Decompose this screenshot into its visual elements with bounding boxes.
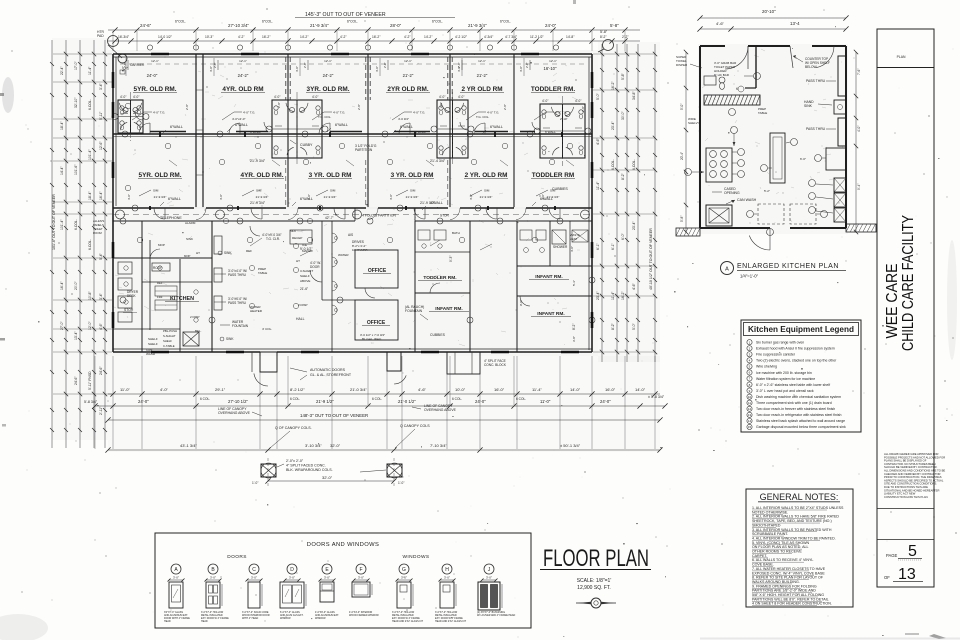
svg-text:OPENING: OPENING	[724, 191, 740, 195]
svg-text:CHILD CARE FACILITY: CHILD CARE FACILITY	[900, 215, 917, 351]
svg-text:WOOD FRAMED WINDOW: WOOD FRAMED WINDOW	[349, 614, 379, 617]
svg-text:SHELF: SHELF	[148, 337, 158, 341]
svg-text:16'-2": 16'-2"	[621, 291, 625, 300]
svg-text:13: 13	[898, 566, 916, 583]
svg-text:Kitchen Equipment Legend: Kitchen Equipment Legend	[748, 325, 854, 334]
svg-text:TODDLER RM.: TODDLER RM.	[423, 275, 456, 281]
svg-text:T.G. CLR.: T.G. CLR.	[266, 237, 280, 241]
door-window symbol G	[399, 564, 409, 574]
svg-text:20'-4": 20'-4"	[680, 152, 684, 160]
svg-text:Garbage disposal mounted below: Garbage disposal mounted below three com…	[756, 425, 846, 429]
svg-text:PAGE: PAGE	[886, 553, 898, 558]
svg-text:8'-2": 8'-2"	[600, 35, 607, 39]
kitchen equipment legend items	[747, 340, 752, 345]
svg-text:12'-1": 12'-1"	[404, 59, 412, 63]
right dimension ticks	[600, 52, 604, 56]
svg-text:CONC. BLOCK: CONC. BLOCK	[484, 363, 507, 367]
svg-text:2'-10": 2'-10"	[560, 117, 568, 121]
svg-text:2'-8": 2'-8"	[457, 62, 461, 68]
enlarged kitchen left wall dim marks	[685, 169, 692, 176]
svg-text:5YR. OLD RM.: 5YR. OLD RM.	[139, 172, 182, 179]
svg-text:5'-8": 5'-8"	[680, 216, 684, 222]
svg-text:Fire suppression canister: Fire suppression canister	[756, 353, 796, 357]
svg-text:S-SHGHT: S-SHGHT	[163, 334, 176, 338]
svg-text:27'-0": 27'-0"	[60, 321, 64, 330]
svg-text:OVERHANG ABOVE: OVERHANG ABOVE	[218, 411, 251, 415]
enlarged kitchen range cluster	[706, 148, 732, 182]
svg-text:HEAD AND 2'X2' GLASS KIT: HEAD AND 2'X2' GLASS KIT	[392, 620, 424, 623]
kitchen east wall	[211, 221, 213, 352]
svg-text:27'-10 1/2": 27'-10 1/2"	[228, 399, 248, 404]
svg-text:101'-6" OUT TO OUT OF VENEER: 101'-6" OUT TO OUT OF VENEER	[52, 194, 56, 250]
svg-text:4'-0 3/4": 4'-0 3/4"	[398, 117, 409, 121]
svg-text:21'-2": 21'-2"	[477, 73, 488, 78]
svg-text:4'-0": 4'-0"	[458, 95, 464, 99]
svg-text:2'-8": 2'-8"	[503, 104, 507, 110]
svg-text:14'-0 1/2": 14'-0 1/2"	[158, 35, 173, 39]
svg-text:21'-9 3/4": 21'-9 3/4"	[468, 23, 487, 28]
svg-text:101'-6": 101'-6"	[74, 164, 78, 175]
interior wall horizontal row divider	[113, 133, 592, 135]
extension lines bottom dims	[94, 356, 96, 449]
svg-text:CAN WASH: CAN WASH	[737, 198, 757, 202]
svg-text:4'-2": 4'-2"	[340, 35, 347, 39]
svg-text:12'-1": 12'-1"	[324, 59, 332, 63]
svg-text:6"COL.: 6"COL.	[175, 20, 186, 24]
svg-text:5'-0": 5'-0"	[680, 104, 684, 110]
svg-text:16'-3/4": 16'-3/4"	[118, 35, 130, 39]
svg-text:WINDOW: WINDOW	[315, 617, 326, 620]
svg-text:4'-0": 4'-0"	[120, 95, 126, 99]
svg-text:BLK. WRAPAROUND COLS.: BLK. WRAPAROUND COLS.	[286, 468, 333, 472]
svg-text:14'-8": 14'-8"	[566, 35, 575, 39]
corridor wall south	[113, 220, 355, 222]
interior vertical wall x450	[449, 54, 451, 208]
svg-text:SINK: SINK	[224, 251, 232, 255]
svg-text:21'-0 3/4": 21'-0 3/4"	[350, 387, 367, 392]
svg-text:PARTITION: PARTITION	[355, 148, 373, 152]
title block outer border	[877, 29, 934, 587]
svg-text:2'-8": 2'-8"	[439, 102, 443, 108]
svg-text:MOP: MOP	[184, 254, 191, 258]
bathroom cluster center right	[437, 100, 468, 158]
svg-text:3'-0": 3'-0"	[289, 576, 295, 580]
svg-text:29'-1": 29'-1"	[215, 387, 226, 392]
svg-text:21'-9 3/4": 21'-9 3/4"	[480, 195, 493, 199]
svg-text:6.COL.: 6.COL.	[632, 159, 636, 170]
svg-text:4" SPLIT FACED CONC.: 4" SPLIT FACED CONC.	[286, 464, 326, 468]
svg-text:6"COL.: 6"COL.	[347, 20, 358, 24]
svg-text:AUTOMATIC DOORS: AUTOMATIC DOORS	[310, 368, 346, 372]
left dimension vertical lines	[51, 40, 53, 448]
svg-text:4'-0"x4'-0": 4'-0"x4'-0"	[232, 117, 245, 121]
svg-text:STOR: STOR	[124, 308, 134, 312]
svg-text:2'-8": 2'-8"	[581, 106, 585, 112]
svg-text:4'-0": 4'-0"	[519, 66, 523, 72]
svg-text:11'-2 1/2": 11'-2 1/2"	[530, 35, 544, 39]
svg-text:5'-8 3/4": 5'-8 3/4"	[84, 400, 98, 404]
svg-text:12,900 SQ. FT.: 12,900 SQ. FT.	[577, 585, 611, 591]
svg-text:6 COL.: 6 COL.	[452, 397, 462, 401]
extension lines top dims	[112, 31, 114, 51]
svg-text:4'-0": 4'-0"	[439, 95, 445, 99]
bottom dimension line row 4	[108, 449, 660, 451]
svg-text:2'-8": 2'-8"	[357, 104, 361, 110]
svg-text:ENLARGED KITCHEN PLAN: ENLARGED KITCHEN PLAN	[737, 263, 839, 270]
enlarged kitchen island	[770, 133, 785, 183]
svg-text:16'-4": 16'-4"	[60, 281, 64, 290]
svg-text:5'-11": 5'-11"	[99, 111, 103, 120]
svg-text:4'-0": 4'-0"	[575, 99, 581, 103]
svg-text:SIM: SIM	[153, 189, 159, 193]
extension lines right dims	[593, 53, 655, 55]
svg-text:12'-6": 12'-6"	[99, 141, 103, 150]
svg-text:5YR. OLD RM.: 5YR. OLD RM.	[134, 86, 177, 93]
svg-text:21'-2": 21'-2"	[403, 73, 414, 78]
svg-text:24'-0": 24'-0"	[475, 399, 486, 404]
svg-text:RECEP: RECEP	[292, 236, 302, 240]
corridor fold partition symbols	[354, 208, 356, 221]
svg-text:4'-0": 4'-0"	[312, 95, 318, 99]
svg-text:42"-7": 42"-7"	[325, 216, 334, 220]
enlarged kitchen range dim arrow	[731, 127, 738, 134]
svg-text:OVERHANG ABOVE: OVERHANG ABOVE	[424, 408, 457, 412]
svg-text:Water filtration system for ic: Water filtration system for ice machine	[756, 377, 815, 381]
svg-text:24'-6": 24'-6"	[74, 376, 78, 385]
svg-text:21'-9 3/4": 21'-9 3/4"	[256, 195, 269, 199]
top dimension line row 1	[108, 29, 640, 31]
svg-text:6'-0": 6'-0"	[621, 232, 625, 240]
svg-text:3'-10 3/4": 3'-10 3/4"	[305, 443, 322, 448]
svg-text:BELOW: BELOW	[805, 65, 817, 69]
svg-text:G: G	[402, 567, 406, 573]
reference bubbles mid walls	[122, 131, 128, 137]
toddler room center walls	[414, 221, 416, 352]
svg-text:SIM: SIM	[484, 189, 490, 193]
svg-text:6.COL.: 6.COL.	[88, 239, 92, 250]
svg-text:OFFICE: OFFICE	[368, 268, 387, 274]
svg-text:10'-0": 10'-0"	[455, 387, 466, 392]
office wall rectangle upper	[355, 250, 398, 288]
svg-text:34'-8": 34'-8"	[632, 91, 636, 100]
svg-text:SINK: SINK	[804, 104, 813, 108]
svg-text:13'-4: 13'-4	[790, 21, 800, 26]
svg-text:6'-1": 6'-1"	[596, 242, 600, 250]
lobby fixtures clutter	[332, 233, 337, 243]
entry vestibule right	[387, 352, 401, 371]
room leader scribbles row2	[139, 190, 151, 196]
svg-text:CONSTRUCTION HOW THIS PLAN.: CONSTRUCTION HOW THIS PLAN.	[884, 495, 929, 499]
svg-text:SIM: SIM	[330, 189, 336, 193]
door arcs bottom band	[365, 288, 375, 298]
svg-text:4'-0": 4'-0"	[375, 66, 379, 72]
svg-text:5'-3": 5'-3"	[572, 280, 576, 286]
svg-text:3YR. OLD RM.: 3YR. OLD RM.	[307, 86, 350, 93]
enlarged kitchen left dim line	[685, 52, 687, 232]
svg-text:21'-9 3/4": 21'-9 3/4"	[250, 201, 266, 205]
svg-text:12'-1": 12'-1"	[151, 59, 159, 63]
svg-text:6 COL.: 6 COL.	[372, 397, 382, 401]
svg-text:4'-0": 4'-0"	[219, 194, 223, 200]
right infant suite walls	[516, 221, 518, 352]
svg-text:43'-1 3/4": 43'-1 3/4"	[180, 443, 197, 448]
svg-text:4'-7 3/4": 4'-7 3/4"	[505, 35, 518, 39]
svg-text:21'-6": 21'-6"	[300, 287, 308, 291]
svg-text:PAD: PAD	[97, 34, 104, 38]
svg-text:T.G. COL.: T.G. COL.	[318, 115, 332, 119]
svg-text:HEAD: HEAD	[201, 620, 208, 623]
doors and windows legend box	[155, 533, 531, 628]
svg-text:REF: REF	[157, 281, 163, 285]
svg-text:SCALE: 1/8"=1': SCALE: 1/8"=1'	[577, 578, 612, 584]
door-window symbol E	[322, 564, 332, 574]
svg-text:DOORS AND WINDOWS: DOORS AND WINDOWS	[307, 542, 380, 548]
exterior wall bottom	[113, 351, 260, 353]
kitchen fixtures and notes	[118, 262, 132, 274]
mid wall tick cluster marks	[159, 132, 161, 137]
entry vestibule left	[260, 352, 277, 372]
svg-text:23'-4": 23'-4"	[632, 221, 636, 230]
svg-text:2 YR. OLD RM: 2 YR. OLD RM	[465, 172, 508, 179]
corridor door openings with arcs down	[194, 207, 206, 209]
exterior wall left	[112, 54, 114, 352]
svg-text:4'-6": 4'-6"	[632, 282, 636, 290]
right bath fixtures	[520, 230, 532, 240]
svg-text:Dish washing machine with chem: Dish washing machine with chemical sanit…	[756, 395, 841, 399]
svg-text:16'-0": 16'-0"	[605, 387, 616, 392]
svg-text:13: 13	[748, 413, 752, 417]
svg-text:20'-0": 20'-0"	[74, 281, 78, 290]
svg-text:15: 15	[748, 425, 752, 429]
door arcs row rooms	[139, 123, 150, 134]
svg-text:12'-1": 12'-1"	[239, 59, 247, 63]
svg-text:2'-8": 2'-8"	[303, 62, 307, 68]
svg-text:Two door reach-in freezer with: Two door reach-in freezer with stainless…	[756, 407, 835, 411]
svg-text:ICE: ICE	[302, 243, 307, 247]
svg-text:9'-0": 9'-0"	[519, 300, 523, 306]
svg-text:21'-0 1/2": 21'-0 1/2"	[398, 399, 416, 404]
svg-text:24'-2": 24'-2"	[323, 73, 334, 78]
svg-text:D: D	[290, 567, 294, 573]
svg-text:40'-10 1/2" OUT TO OUT OF VENE: 40'-10 1/2" OUT TO OUT OF VENEER	[649, 228, 653, 290]
svg-text:TODDLER RM.: TODDLER RM.	[531, 86, 575, 93]
svg-text:24'-0": 24'-0"	[545, 23, 557, 28]
svg-text:6'-1": 6'-1"	[611, 242, 615, 250]
svg-text:SIM: SIM	[410, 189, 416, 193]
svg-text:3'-0" L over head pot and uten: 3'-0" L over head pot and utensil rack	[756, 389, 814, 393]
window sill marks along top wall	[151, 53, 169, 56]
svg-text:6'-0": 6'-0"	[800, 157, 806, 161]
svg-text:W/ LOUVER AND 4" FRAME HEAD: W/ LOUVER AND 4" FRAME HEAD	[477, 614, 515, 617]
door-window symbol C	[249, 564, 259, 574]
svg-text:24'-6": 24'-6"	[140, 23, 152, 28]
svg-text:PASS THRU: PASS THRU	[228, 273, 247, 277]
enlarged kitchen door arc top right	[816, 46, 834, 68]
bathroom cluster row1 left	[118, 100, 143, 133]
svg-text:101'-4": 101'-4"	[88, 149, 92, 160]
svg-text:2.DISP: 2.DISP	[298, 303, 308, 307]
svg-text:4' COL.: 4' COL.	[262, 327, 272, 331]
left dimension extra ticks	[50, 62, 54, 66]
svg-text:T.G. COL.: T.G. COL.	[476, 115, 490, 119]
svg-text:2'-8": 2'-8"	[123, 62, 127, 68]
bottom dimension line row 1	[108, 393, 660, 395]
svg-text:4'-0" T.G.: 4'-0" T.G.	[487, 111, 499, 115]
entry storefront right	[447, 352, 480, 374]
svg-text:8'-2": 8'-2"	[572, 324, 576, 330]
enlarged kitchen top interior partition	[755, 46, 757, 88]
svg-text:2 YR OLD RM: 2 YR OLD RM	[461, 86, 502, 93]
svg-text:11'-4": 11'-4"	[88, 66, 92, 75]
svg-text:4'-2": 4'-2"	[404, 35, 411, 39]
svg-text:6"WALL: 6"WALL	[545, 130, 556, 134]
svg-text:1'-0": 1'-0"	[398, 481, 404, 485]
room leader scribbles row1	[132, 112, 144, 120]
enlarged kitchen toilet room fixtures	[704, 76, 716, 85]
svg-text:3'-0": 3'-0"	[401, 576, 407, 580]
bathroom cluster center left	[272, 100, 322, 158]
kitchen extra fixtures	[118, 296, 132, 308]
svg-text:21'-9 3/4": 21'-9 3/4"	[547, 195, 560, 199]
svg-text:WITH 4" HEAD: WITH 4" HEAD	[242, 617, 259, 620]
svg-text:5'-2": 5'-2"	[764, 189, 770, 193]
svg-text:18'-4": 18'-4"	[60, 121, 64, 130]
svg-text:10'-3": 10'-3"	[205, 35, 214, 39]
svg-text:6"COL.: 6"COL.	[262, 20, 273, 24]
svg-text:6"WALL: 6"WALL	[400, 125, 413, 129]
exterior wall right	[591, 54, 593, 352]
svg-text:PASS THRU: PASS THRU	[228, 301, 247, 305]
svg-text:11'-4": 11'-4"	[532, 387, 542, 392]
svg-text:GL. & AL. STOREFRONT: GL. & AL. STOREFRONT	[310, 373, 352, 377]
svg-text:4'-6": 4'-6"	[716, 21, 725, 26]
svg-text:8'-2": 8'-2"	[611, 322, 615, 330]
svg-text:21'-9 3/4": 21'-9 3/4"	[324, 195, 337, 199]
svg-text:11'-0": 11'-0"	[120, 387, 130, 392]
svg-text:24'-0": 24'-0"	[147, 73, 158, 78]
svg-text:24'-0": 24'-0"	[138, 399, 149, 404]
canopy column dimension	[268, 480, 394, 482]
svg-text:1'-0": 1'-0"	[252, 481, 258, 485]
svg-text:F: F	[359, 567, 362, 573]
top dimension line row 2	[108, 40, 640, 42]
svg-text:21'-9 3/4": 21'-9 3/4"	[154, 195, 167, 199]
svg-text:WEE CARE: WEE CARE	[884, 264, 901, 339]
title block top divider	[877, 67, 934, 69]
svg-text:4'-0": 4'-0"	[307, 194, 311, 200]
svg-text:Two (2) electric ovens, stacke: Two (2) electric ovens, stacked one on t…	[756, 359, 837, 363]
svg-text:C-TABLE: C-TABLE	[163, 344, 175, 348]
enlarged kitchen door arc top left	[725, 46, 748, 69]
svg-text:FOUNTAIN: FOUNTAIN	[405, 309, 423, 313]
soffit dashed line under top wall	[120, 63, 585, 65]
svg-text:5'-8": 5'-8"	[610, 23, 619, 28]
svg-text:2'-8": 2'-8"	[277, 102, 281, 108]
svg-text:14'-4": 14'-4"	[60, 166, 64, 175]
svg-text:32'-0": 32'-0"	[330, 443, 341, 448]
svg-text:AIS: AIS	[348, 233, 353, 237]
svg-text:4'-0" T.G.: 4'-0" T.G.	[153, 111, 165, 115]
svg-text:HT: HT	[196, 251, 200, 255]
enlarged kitchen dashed equipment bottom	[758, 204, 784, 224]
interior vertical wall x514	[513, 54, 515, 208]
svg-text:14'-2": 14'-2"	[424, 35, 433, 39]
svg-text:PBL-PUSH: PBL-PUSH	[163, 329, 177, 333]
partition dashed lines rooms	[285, 57, 287, 100]
svg-text:INFANT RM.: INFANT RM.	[537, 311, 564, 317]
scan artifact left edge marks	[0, 93, 4, 96]
svg-text:6"WALL: 6"WALL	[168, 197, 181, 201]
svg-text:11'-0": 11'-0"	[540, 399, 551, 404]
svg-text:8'-2 1/2": 8'-2 1/2"	[290, 387, 305, 392]
svg-text:7'-10 3/4": 7'-10 3/4"	[430, 443, 447, 448]
svg-text:Three compartment sink with on: Three compartment sink with one (1) drai…	[756, 401, 832, 405]
svg-text:4'-0": 4'-0"	[133, 95, 139, 99]
svg-text:± 5'-8 3/4": ± 5'-8 3/4"	[648, 395, 665, 399]
svg-text:4'-2 1/2": 4'-2 1/2"	[455, 35, 468, 39]
svg-text:22'-4": 22'-4"	[60, 66, 64, 75]
svg-text:Ice machine with 200 lb. stora: Ice machine with 200 lb. storage bin	[756, 371, 812, 375]
door-window symbol D	[287, 564, 297, 574]
svg-text:HEAD: HEAD	[164, 620, 171, 623]
misc leader lines bottom band	[250, 238, 262, 246]
svg-text:16'-2": 16'-2"	[262, 35, 271, 39]
center toddler room fixtures	[418, 230, 430, 240]
svg-text:21'-9 1/2": 21'-9 1/2"	[316, 399, 334, 404]
cubby counter thick marks on mid wall	[150, 131, 186, 133]
svg-text:6'-0" x 2'-6" stainless steel: 6'-0" x 2'-6" stainless steel table with…	[756, 383, 830, 387]
bottom dimension line row 2	[95, 405, 665, 407]
svg-text:5'-0": 5'-0"	[596, 92, 600, 100]
svg-text:HEATER: HEATER	[250, 309, 263, 313]
svg-text:WATER: WATER	[338, 253, 349, 257]
svg-text:3'-4": 3'-4"	[99, 82, 103, 90]
svg-text:INFANT RM.: INFANT RM.	[435, 306, 462, 312]
svg-text:12'-1": 12'-1"	[549, 59, 557, 63]
svg-text:PASS THRU: PASS THRU	[806, 79, 826, 83]
scan gray wash over plan	[108, 50, 598, 356]
svg-text:4 ON SHEET 8 FOR HEADER CONSTR: 4 ON SHEET 8 FOR HEADER CONSTRUCTION.	[752, 602, 832, 606]
svg-text:21'-9 3/4": 21'-9 3/4"	[250, 159, 266, 163]
enlarged kitchen exterior walls	[700, 45, 725, 47]
svg-text:32'-10": 32'-10"	[74, 97, 78, 108]
svg-text:ABOVE: ABOVE	[300, 279, 310, 283]
svg-text:FLOOR PLAN: FLOOR PLAN	[543, 545, 649, 572]
svg-text:4'-0": 4'-0"	[389, 194, 393, 200]
svg-text:16'-0": 16'-0"	[494, 387, 505, 392]
svg-text:3'-4": 3'-4"	[99, 292, 103, 300]
svg-text:2'-11": 2'-11"	[99, 406, 103, 415]
svg-text:6"COL.: 6"COL.	[500, 20, 511, 24]
svg-text:24'-6": 24'-6"	[99, 366, 103, 375]
left dimension ticks	[64, 52, 68, 56]
svg-text:6.COL.: 6.COL.	[611, 159, 615, 170]
svg-text:Q OF CANOPY COLS.: Q OF CANOPY COLS.	[275, 426, 312, 430]
svg-text:3'-0": 3'-0"	[486, 576, 492, 580]
window sill marks along bottom wall	[151, 351, 169, 354]
svg-text:REF: REF	[246, 249, 252, 253]
svg-text:TABLE: TABLE	[258, 271, 267, 275]
scattered circled bubbles interior	[125, 103, 131, 109]
north arrow emblem	[591, 598, 601, 608]
svg-text:14'-0": 14'-0"	[635, 387, 646, 392]
svg-text:HEAD AND 2'X2' GLASS KIT: HEAD AND 2'X2' GLASS KIT	[435, 620, 467, 623]
svg-text:SHOWER: SHOWER	[553, 245, 568, 249]
svg-text:Stainless steel back splash at: Stainless steel back splash attached to …	[756, 419, 845, 423]
svg-text:5'-0": 5'-0"	[632, 322, 636, 330]
corridor wall north	[113, 207, 592, 209]
scan artifact top edge speck	[573, 0, 576, 4]
